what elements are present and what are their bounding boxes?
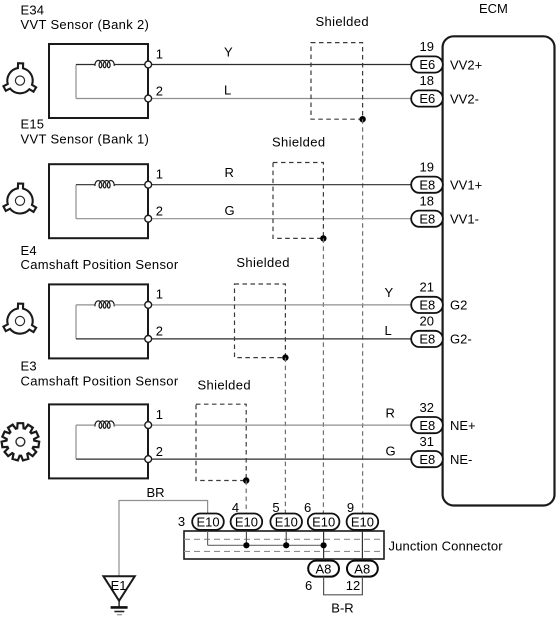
coil loop left wire [75, 65, 77, 99]
svg-text:G2-: G2- [450, 332, 472, 347]
svg-text:VV1+: VV1+ [450, 178, 482, 193]
junction dot pin6 [321, 542, 327, 548]
coil to pin 1 wire [114, 424, 145, 426]
junction connector inner dashed bus line 1 [184, 538, 384, 540]
svg-text:BR: BR [147, 485, 165, 500]
svg-text:E8: E8 [419, 211, 435, 226]
wire BR ground lead [119, 501, 208, 577]
shield drain vertical pin4 inside junction [245, 531, 247, 545]
svg-text:2: 2 [156, 83, 163, 98]
coil loop left wire [75, 185, 77, 219]
svg-text:Camshaft Position Sensor: Camshaft Position Sensor [21, 257, 179, 272]
wire G pin2 to ECM [151, 218, 411, 220]
svg-text:4: 4 [232, 500, 239, 515]
shield drain vertical pin5 inside junction [285, 531, 287, 545]
shield drain wire (dashed drop) [245, 481, 247, 514]
svg-text:B-R: B-R [331, 600, 353, 615]
pin 1 terminal [145, 181, 152, 188]
svg-text:R: R [225, 165, 234, 180]
shield drain wire (dashed drop) [362, 119, 364, 513]
junction internal ground bus wire [208, 544, 324, 546]
svg-text:E6: E6 [419, 91, 435, 106]
svg-text:3: 3 [178, 514, 185, 529]
sensor rotor outline [3, 63, 36, 93]
sensor center hole [15, 196, 24, 205]
sensor rotor outline [3, 183, 36, 213]
connector oval E8 pin 21 [411, 297, 443, 313]
svg-text:E8: E8 [419, 298, 435, 313]
shield dashed box [311, 43, 363, 120]
wire L pin2 to ECM [151, 338, 411, 340]
wire R pin1 to ECM [151, 424, 411, 426]
svg-text:E15: E15 [21, 117, 45, 132]
junction dot pin4 [243, 542, 249, 548]
svg-text:E4: E4 [21, 243, 37, 258]
sensor rotor outline [3, 304, 36, 334]
coil to pin 1 wire [114, 64, 145, 66]
svg-text:Shielded: Shielded [236, 255, 289, 270]
pickup coil inductor [95, 301, 114, 308]
connector oval E6 pin 19 [411, 56, 443, 72]
sensor center hole [15, 316, 24, 325]
coil loop left wire [75, 305, 77, 339]
coil loop left wire [75, 425, 77, 459]
svg-text:G: G [386, 443, 396, 458]
svg-text:R: R [386, 405, 395, 420]
wire Y pin1 to ECM [151, 64, 411, 66]
pin 2 terminal [145, 456, 152, 463]
crank/cam gear icon [2, 423, 40, 460]
connector oval A8 pin 6 [308, 561, 339, 577]
junction connector oval E10 pin 9 [347, 514, 379, 530]
sensor box E4 [49, 284, 148, 358]
svg-text:19: 19 [420, 159, 434, 174]
sensor box E15 [49, 164, 148, 238]
pickup coil inductor [95, 60, 114, 67]
through wire pin9 to A8-12 [361, 531, 363, 561]
wire G pin2 to ECM [151, 458, 411, 460]
svg-text:VV1-: VV1- [450, 212, 479, 227]
pickup coil inductor [95, 181, 114, 188]
coil to pin 1 wire [114, 304, 145, 306]
shield drain wire (dashed drop) [322, 238, 324, 513]
pickup coil inductor [95, 421, 114, 428]
svg-text:E6: E6 [419, 57, 435, 72]
pin 2 terminal [145, 215, 152, 222]
junction dot pin5 [283, 542, 289, 548]
connector oval E6 pin 18 [411, 90, 443, 106]
junction connector inner dashed bus line 2 [184, 550, 384, 552]
pin 1 terminal [145, 302, 152, 309]
svg-text:E8: E8 [419, 452, 435, 467]
coil loop bottom wire [76, 338, 145, 340]
svg-text:A8: A8 [354, 562, 370, 577]
coil to pin 1 wire [114, 184, 145, 186]
svg-text:E3: E3 [21, 359, 37, 374]
connector oval A8 pin 12 [347, 561, 378, 577]
pin 2 terminal [145, 95, 152, 102]
shield junction dot [282, 354, 288, 360]
svg-text:1: 1 [156, 287, 163, 302]
svg-text:2: 2 [156, 204, 163, 219]
shield junction dot [243, 477, 249, 483]
svg-text:VVT Sensor (Bank 2): VVT Sensor (Bank 2) [21, 17, 150, 32]
svg-text:19: 19 [420, 39, 434, 54]
sensor center hole [15, 76, 24, 85]
shield dashed box [235, 284, 286, 358]
svg-text:Camshaft Position Sensor: Camshaft Position Sensor [21, 374, 179, 389]
svg-text:E34: E34 [21, 2, 45, 17]
svg-text:E1: E1 [111, 578, 127, 593]
svg-text:Shielded: Shielded [272, 135, 325, 150]
connector oval E8 pin 32 [411, 417, 443, 433]
svg-text:E8: E8 [419, 332, 435, 347]
junction connector box [184, 531, 384, 559]
svg-text:6: 6 [305, 578, 312, 593]
svg-text:1: 1 [156, 46, 163, 61]
svg-text:VV2-: VV2- [450, 91, 479, 106]
coil loop bottom wire [76, 458, 145, 460]
svg-text:E10: E10 [235, 515, 258, 530]
junction connector oval E10 pin 5 [270, 514, 302, 530]
sensor box E3 [49, 404, 148, 478]
svg-text:18: 18 [420, 73, 434, 88]
svg-text:NE-: NE- [450, 452, 472, 467]
wire L pin2 to ECM [151, 98, 411, 100]
svg-text:12: 12 [346, 578, 360, 593]
junction connector oval E10 pin 3 [192, 514, 224, 530]
through wire pin6 to A8-6 [323, 531, 325, 561]
shield dashed box [196, 404, 246, 480]
coil loop bottom wire [76, 98, 145, 100]
svg-text:31: 31 [420, 434, 434, 449]
connector oval E8 pin 18 [411, 211, 443, 227]
svg-text:VV2+: VV2+ [450, 57, 482, 72]
ground bar 3 [117, 614, 122, 616]
svg-text:Y: Y [224, 45, 233, 60]
svg-text:6: 6 [304, 500, 311, 515]
pin 1 terminal [145, 422, 152, 429]
coil loop top wire [76, 184, 95, 186]
svg-text:2: 2 [156, 324, 163, 339]
svg-text:1: 1 [156, 407, 163, 422]
ground stem [118, 601, 120, 607]
svg-text:G2: G2 [450, 298, 467, 313]
shield junction dot [320, 235, 326, 241]
wire R pin1 to ECM [151, 184, 411, 186]
svg-text:Shielded: Shielded [198, 378, 251, 393]
svg-text:5: 5 [272, 500, 279, 515]
svg-text:21: 21 [420, 280, 434, 295]
coil loop top wire [76, 424, 95, 426]
gear center hole [16, 437, 25, 446]
svg-text:32: 32 [420, 400, 434, 415]
shield dashed box [273, 163, 323, 239]
svg-text:1: 1 [156, 167, 163, 182]
svg-text:Y: Y [385, 285, 394, 300]
pin 2 terminal [145, 336, 152, 343]
svg-text:NE+: NE+ [450, 418, 476, 433]
coil loop bottom wire [76, 218, 145, 220]
shield junction dot [359, 116, 365, 122]
coil loop top wire [76, 304, 95, 306]
connector oval E8 pin 20 [411, 331, 443, 347]
svg-text:Junction Connector: Junction Connector [389, 539, 504, 554]
BR entry vertical inside junction [207, 531, 209, 545]
ground bar 1 [111, 606, 128, 609]
connector oval E8 pin 31 [411, 451, 443, 467]
junction connector oval E10 pin 4 [231, 514, 263, 530]
svg-text:9: 9 [347, 500, 354, 515]
svg-text:2: 2 [156, 444, 163, 459]
svg-text:20: 20 [420, 314, 434, 329]
svg-text:ECM: ECM [479, 1, 508, 16]
ECM box [443, 36, 555, 505]
svg-text:E10: E10 [312, 515, 335, 530]
svg-text:L: L [224, 83, 231, 98]
svg-text:E8: E8 [419, 418, 435, 433]
svg-text:18: 18 [420, 193, 434, 208]
junction connector oval E10 pin 6 [308, 514, 340, 530]
shield drain wire (dashed drop) [284, 358, 286, 514]
connector oval E8 pin 19 [411, 177, 443, 193]
svg-text:E10: E10 [275, 515, 298, 530]
svg-text:E10: E10 [351, 515, 374, 530]
pin 1 terminal [145, 61, 152, 68]
ground bar 2 [114, 611, 124, 613]
svg-text:VVT Sensor (Bank 1): VVT Sensor (Bank 1) [21, 131, 150, 146]
svg-text:Shielded: Shielded [316, 14, 369, 29]
svg-text:E8: E8 [419, 177, 435, 192]
sensor box E34 [49, 44, 148, 118]
ground symbol E1 triangle [103, 576, 134, 601]
svg-text:G: G [225, 203, 235, 218]
coil loop top wire [76, 64, 95, 66]
svg-text:A8: A8 [316, 562, 332, 577]
svg-text:E10: E10 [197, 515, 220, 530]
wire B-R to ground [324, 577, 363, 595]
wire Y pin1 to ECM [151, 304, 411, 306]
svg-text:L: L [385, 323, 392, 338]
